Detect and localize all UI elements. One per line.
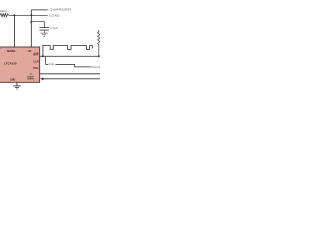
svg-text:CHG: CHG xyxy=(49,62,55,66)
svg-text:SHDN: SHDN xyxy=(27,77,34,81)
svg-text:LTC4150: LTC4150 xyxy=(4,62,17,66)
svg-text:4.7µF: 4.7µF xyxy=(50,26,58,30)
svg-text:CLR: CLR xyxy=(33,60,39,64)
svg-text:CHARGER: CHARGER xyxy=(49,8,72,12)
svg-text:RSENSE: RSENSE xyxy=(0,9,7,13)
svg-text:SENSE–: SENSE– xyxy=(7,49,17,53)
svg-text:GND: GND xyxy=(10,77,15,81)
svg-text:POL: POL xyxy=(33,66,38,70)
svg-text:LOAD: LOAD xyxy=(49,14,60,18)
svg-text:VDD: VDD xyxy=(28,49,32,53)
svg-text:DISCHARGE: DISCHARGE xyxy=(90,65,100,69)
